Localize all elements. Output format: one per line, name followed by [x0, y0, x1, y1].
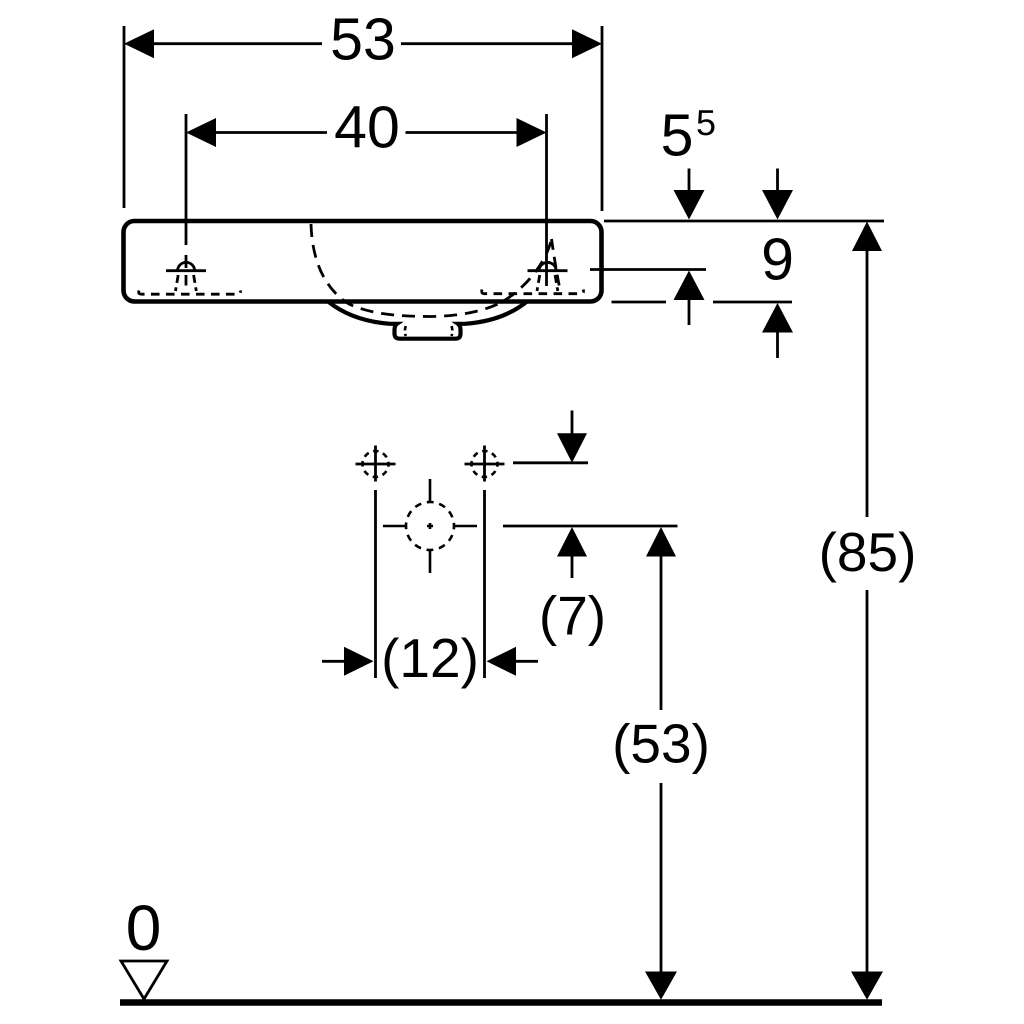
- right tap hole: cross line: [528, 269, 568, 272]
- dim 85: down arrow: [851, 972, 883, 1000]
- basin bowl hidden contour (dashed): [311, 224, 552, 317]
- dim 53: left arrow: [124, 29, 154, 58]
- dim 53: dimension line: [152, 42, 322, 45]
- bowl underside with drain boss (solid): [328, 302, 527, 339]
- svg-text:(53): (53): [612, 713, 710, 775]
- top edge extension line to right: [604, 220, 884, 223]
- left tap hole: arc: [178, 262, 195, 271]
- dim 40: right arrow: [517, 118, 547, 147]
- washbasin body outline: [124, 221, 602, 302]
- dim 53h: up arrow: [646, 527, 676, 557]
- dim 40: left arrow: [186, 118, 216, 147]
- datum triangle: [121, 961, 167, 999]
- drain center height leader line: [503, 525, 678, 528]
- svg-text:(85): (85): [819, 521, 917, 583]
- right tap hole: right leg (dashed): [555, 275, 558, 291]
- dim 53: extension line right: [601, 26, 604, 211]
- dim 5.5: up arrow: [674, 271, 705, 301]
- svg-text:40: 40: [334, 95, 400, 161]
- right tap hole: arc: [539, 262, 556, 271]
- dim 9: down arrow: [776, 169, 779, 193]
- floor line: [120, 999, 882, 1006]
- dim 40: extension line right: [545, 114, 548, 286]
- right tap hole: left leg (dashed): [537, 275, 540, 291]
- svg-text:53: 53: [330, 7, 396, 73]
- basin bowl hidden contour right descent (dashed): [552, 239, 561, 289]
- dim 7: down arrow: [571, 411, 574, 436]
- dim 9: up arrow: [762, 303, 793, 333]
- left tap hole: center line dashes: [185, 255, 188, 268]
- svg-text:9: 9: [761, 227, 794, 293]
- dim 40: extension line left: [185, 114, 188, 245]
- drain inner right tick (dashed): [450, 326, 454, 336]
- dim 12: extension line right: [483, 490, 486, 678]
- screw hole marker left: [356, 446, 396, 482]
- dim 12: right arrow: [487, 647, 517, 676]
- left tap hole: left leg (dashed): [176, 275, 179, 291]
- dim 53h: line lower part: [660, 783, 663, 972]
- dim 7: top leader line: [513, 461, 588, 464]
- dim 85: up arrow: [852, 222, 882, 252]
- drain inner left tick (dashed): [404, 326, 407, 336]
- dim 53: extension line left: [123, 26, 126, 208]
- svg-text:5: 5: [661, 103, 694, 169]
- svg-text:(7): (7): [539, 585, 606, 647]
- dim 5.5: down arrow: [688, 169, 691, 193]
- svg-text:(12): (12): [381, 627, 479, 689]
- dim 85: line upper part: [866, 250, 869, 517]
- svg-text:0: 0: [126, 892, 162, 964]
- dim 53h: down arrow: [645, 972, 677, 1000]
- screw hole marker right: [465, 446, 505, 482]
- left tap hole: base line (dashed): [139, 291, 241, 295]
- left tap hole: cross line: [166, 269, 206, 272]
- dim 53: right arrow: [572, 29, 602, 58]
- dim 53h: line upper part: [660, 556, 663, 711]
- bottom edge leader line segment 2: [713, 301, 792, 304]
- left tap hole: right leg (dashed): [194, 275, 197, 291]
- dim 12: left arrow: [322, 660, 346, 663]
- bottom edge leader line segment 1: [612, 301, 667, 304]
- dim 85: line lower part: [866, 590, 869, 972]
- drain hole marker: [383, 479, 477, 573]
- dim 40: dimension line: [214, 131, 327, 134]
- right tap hole: base line (dashed): [482, 290, 584, 294]
- dim 7: up arrow: [557, 527, 587, 557]
- dim 12: extension line left: [374, 490, 377, 678]
- tap center height leader line: [590, 268, 706, 271]
